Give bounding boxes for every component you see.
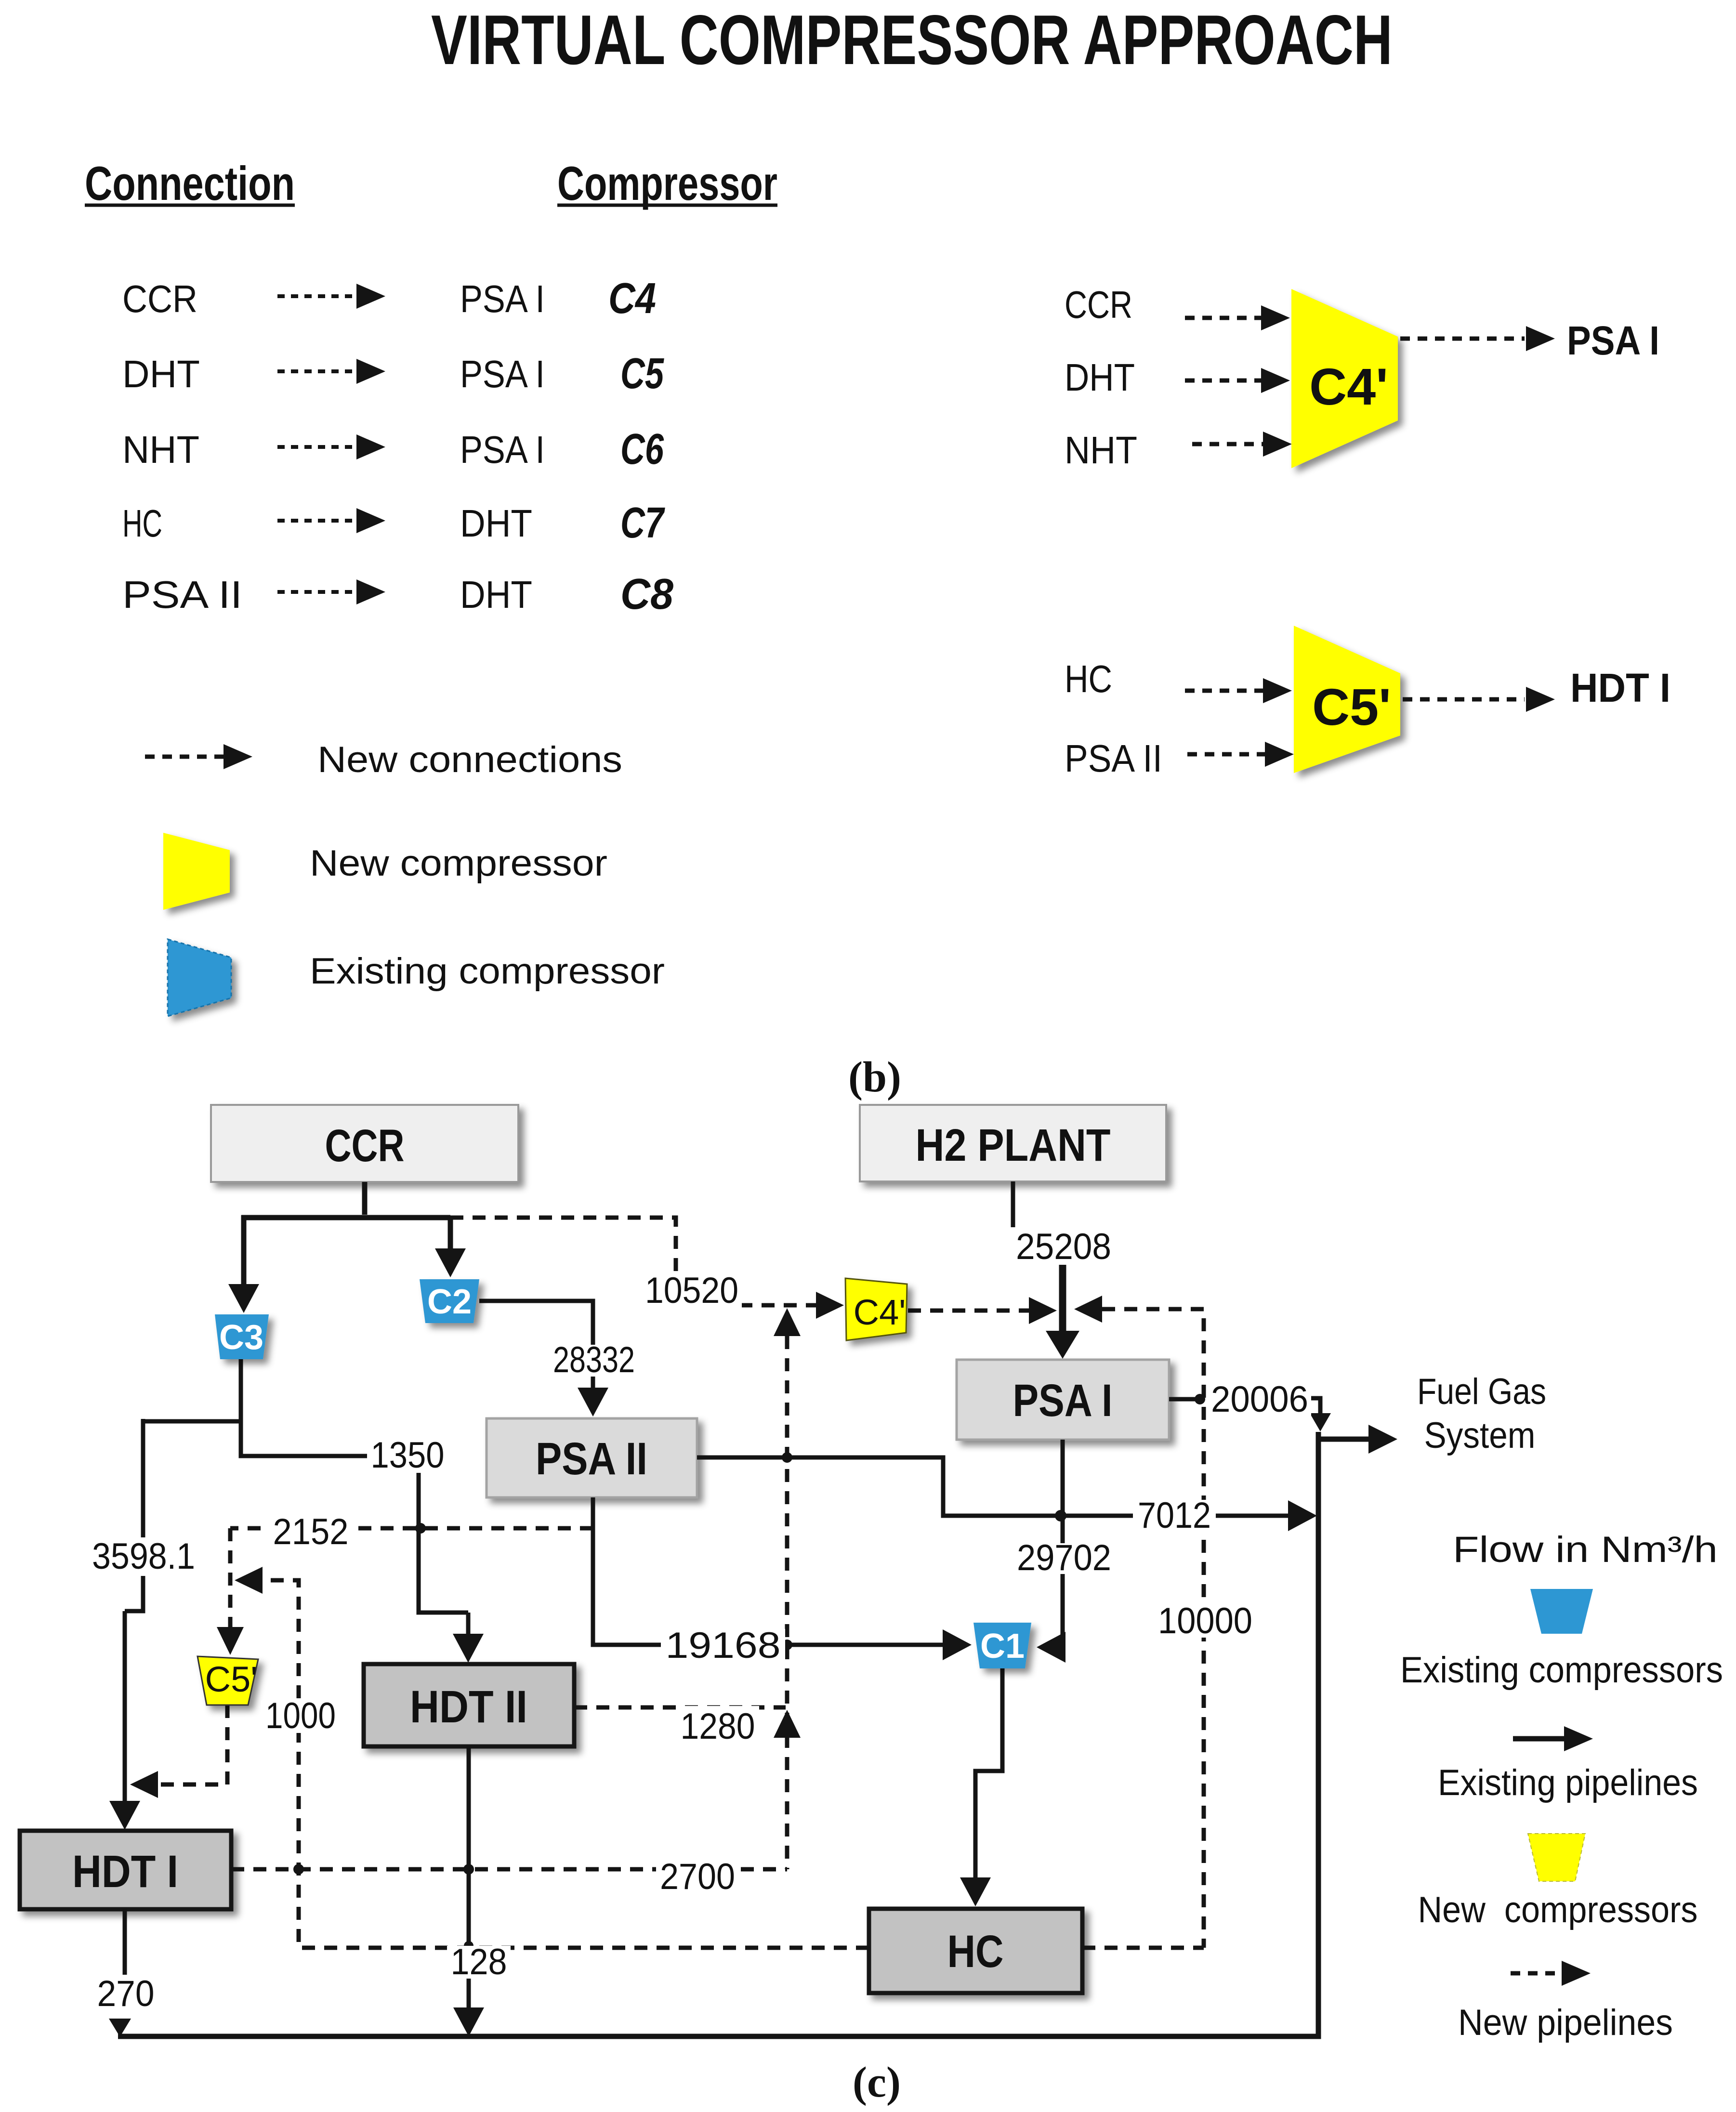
wire DHT to C4' dashed arrow bbox=[1185, 379, 1262, 383]
node junction 1350/2152 bbox=[415, 1523, 426, 1534]
svg-text:(b): (b) bbox=[848, 1053, 901, 1101]
svg-text:1350: 1350 bbox=[371, 1435, 445, 1476]
svg-text:29702: 29702 bbox=[1017, 1537, 1111, 1578]
svg-text:Connection: Connection bbox=[85, 157, 295, 210]
svg-text:NHT: NHT bbox=[1065, 429, 1137, 472]
svg-text:Existing compressor: Existing compressor bbox=[310, 951, 665, 992]
svg-text:H2 PLANT: H2 PLANT bbox=[916, 1120, 1111, 1171]
wire H2 PLANT down bbox=[1011, 1181, 1015, 1227]
svg-text:New connections: New connections bbox=[317, 739, 622, 780]
wire 25208 into PSA I bbox=[1059, 1264, 1066, 1331]
svg-text:C7: C7 bbox=[620, 499, 665, 547]
flow label 1000 bbox=[261, 1700, 340, 1733]
wire HDT I down 270 to bus bbox=[123, 1909, 127, 1975]
wire row2 dashed arrow bbox=[277, 369, 359, 373]
wire row1 dashed arrow bbox=[277, 294, 359, 298]
wire 20006 elbow to bus bbox=[1309, 1398, 1320, 1413]
svg-text:1280: 1280 bbox=[681, 1706, 755, 1747]
svg-text:2700: 2700 bbox=[660, 1856, 735, 1897]
box HDT II bbox=[364, 1664, 574, 1746]
wire HDT I dashed 2700 to riser bbox=[231, 1867, 787, 1872]
box CCR bbox=[211, 1105, 518, 1182]
wire C3 junction left 3598.1 bbox=[125, 1419, 241, 1801]
compressor C4' (section c) bbox=[845, 1278, 907, 1340]
wire HDT II dashed 1280 to riser bbox=[574, 1705, 786, 1710]
legend existing compressor symbol bbox=[168, 939, 231, 1016]
svg-text:C5: C5 bbox=[620, 350, 665, 398]
svg-text:128: 128 bbox=[451, 1941, 507, 1982]
svg-text:C8: C8 bbox=[620, 570, 673, 618]
wire C5' out dashed to HDT I feed bbox=[158, 1705, 227, 1784]
flow label 20006 bbox=[1208, 1382, 1311, 1416]
wire C3 down and 1350 branch bbox=[241, 1359, 468, 1634]
flow label 3598.1 bbox=[89, 1543, 196, 1573]
svg-text:PSA II: PSA II bbox=[122, 573, 242, 616]
wire HC to C5' dashed arrow bbox=[1185, 689, 1264, 693]
svg-text:PSA II: PSA II bbox=[536, 1433, 647, 1484]
svg-text:C4': C4' bbox=[1309, 357, 1388, 416]
flow label 128 bbox=[447, 1946, 511, 1979]
svg-text:PSA I: PSA I bbox=[1567, 318, 1659, 363]
wire CCR split bar bbox=[241, 1215, 450, 1220]
svg-text:PSA I: PSA I bbox=[460, 428, 545, 471]
box H2 PLANT bbox=[860, 1105, 1166, 1181]
svg-text:2152: 2152 bbox=[273, 1511, 349, 1552]
wire HDT II down 128 to bus bbox=[467, 1746, 471, 2008]
svg-text:C4: C4 bbox=[608, 275, 656, 323]
svg-text:HDT I: HDT I bbox=[1570, 665, 1670, 710]
svg-text:Fuel Gas: Fuel Gas bbox=[1417, 1371, 1546, 1412]
legend new connections arrow bbox=[145, 755, 224, 759]
box HDT I bbox=[20, 1831, 231, 1909]
svg-text:HC: HC bbox=[1065, 657, 1112, 700]
compressor C4' (section b) bbox=[1291, 289, 1398, 468]
svg-text:C6: C6 bbox=[620, 425, 664, 473]
svg-text:C3: C3 bbox=[219, 1318, 263, 1357]
wire PSA II right to fuel bus 7012 bbox=[697, 1457, 1289, 1516]
svg-text:C1: C1 bbox=[980, 1627, 1025, 1666]
flow label 29702 bbox=[1013, 1543, 1112, 1574]
svg-text:Existing compressors: Existing compressors bbox=[1400, 1650, 1723, 1691]
wire bus to Fuel Gas System arrow bbox=[1318, 1437, 1369, 1442]
svg-text:DHT: DHT bbox=[460, 573, 532, 616]
wire C4' to PSA I dashed arrow bbox=[1400, 337, 1525, 341]
flow label 25208 bbox=[1013, 1231, 1115, 1265]
svg-text:PSA I: PSA I bbox=[460, 277, 545, 320]
flow label 19168 bbox=[661, 1629, 785, 1664]
wire CCR to C4' dashed arrow bbox=[1185, 316, 1262, 320]
wire NHT to C4' dashed arrow bbox=[1192, 442, 1267, 446]
legend new pipelines arrow bbox=[1511, 1971, 1563, 1976]
wire row3 dashed arrow bbox=[277, 445, 359, 449]
compressor C3 bbox=[215, 1314, 269, 1359]
wire right dashed feed to PSA I line bbox=[1082, 1309, 1204, 1948]
svg-text:VIRTUAL COMPRESSOR APPROACH: VIRTUAL COMPRESSOR APPROACH bbox=[431, 0, 1393, 79]
svg-text:28332: 28332 bbox=[553, 1339, 635, 1380]
svg-text:System: System bbox=[1424, 1415, 1536, 1456]
node junction 7012/29702 bbox=[1055, 1510, 1066, 1522]
wire vertical dashed riser to C4' bbox=[785, 1336, 789, 1869]
svg-text:Existing pipelines: Existing pipelines bbox=[1438, 1762, 1698, 1803]
svg-text:HC: HC bbox=[122, 502, 162, 545]
wire fuel gas bus bbox=[118, 1432, 1318, 2036]
box HC bbox=[869, 1909, 1082, 1993]
legend new compressor symbol (c) bbox=[1528, 1834, 1585, 1881]
wire CCR to C2 bbox=[448, 1218, 453, 1248]
flow label 10520 bbox=[641, 1272, 742, 1309]
svg-text:Flow in Nm³/h: Flow in Nm³/h bbox=[1453, 1529, 1718, 1570]
wire PSA II down 19168 to C1 bbox=[593, 1497, 944, 1645]
svg-text:CCR: CCR bbox=[122, 277, 197, 320]
wire C2 out to PSA II bbox=[479, 1301, 593, 1388]
node junction 2700/1000 bbox=[293, 1864, 304, 1875]
flow label 7012 bbox=[1133, 1500, 1216, 1533]
wire CCR to C3 bbox=[241, 1215, 247, 1284]
wire row5 dashed arrow bbox=[277, 590, 359, 594]
legend new compressor symbol bbox=[163, 833, 230, 910]
flow label 270 bbox=[94, 1979, 157, 2010]
node junction 2700/128 bbox=[463, 1864, 474, 1875]
wire PSA II dashed 2152 bbox=[230, 1526, 593, 1531]
svg-text:CCR: CCR bbox=[1065, 283, 1132, 326]
flow label 1350 bbox=[367, 1438, 448, 1473]
svg-text:HC: HC bbox=[947, 1926, 1004, 1977]
svg-text:270: 270 bbox=[97, 1973, 155, 2014]
svg-text:C4': C4' bbox=[854, 1292, 906, 1332]
wire CCR down bbox=[362, 1182, 368, 1215]
node junction riser/19168 bbox=[782, 1640, 792, 1650]
svg-text:7012: 7012 bbox=[1138, 1495, 1211, 1536]
svg-text:1000: 1000 bbox=[265, 1695, 336, 1736]
flow label 10000 bbox=[1156, 1605, 1254, 1638]
arrow up 1280 flow on riser bbox=[774, 1710, 801, 1738]
svg-text:HDT I: HDT I bbox=[72, 1846, 178, 1897]
legend existing compressor symbol (c) bbox=[1530, 1589, 1593, 1634]
flow label 2700 bbox=[656, 1862, 739, 1893]
svg-text:PSA II: PSA II bbox=[1065, 737, 1162, 780]
flow label 1280 bbox=[676, 1706, 759, 1744]
wire 20006 from PSA I bbox=[1169, 1397, 1198, 1402]
svg-text:10520: 10520 bbox=[645, 1270, 738, 1311]
svg-text:20006: 20006 bbox=[1211, 1379, 1308, 1420]
compressor C5' (section b) bbox=[1294, 626, 1400, 773]
node junction 20006/10000 bbox=[1195, 1394, 1205, 1404]
compressor C5' (section c) bbox=[197, 1656, 258, 1705]
svg-text:NHT: NHT bbox=[122, 428, 199, 471]
svg-text:25208: 25208 bbox=[1016, 1226, 1111, 1267]
svg-text:(c): (c) bbox=[853, 2059, 901, 2106]
box PSA I bbox=[957, 1360, 1169, 1440]
flow label 2152 bbox=[268, 1516, 353, 1548]
wire C4' out dashed bbox=[908, 1309, 1029, 1313]
svg-text:10000: 10000 bbox=[1158, 1600, 1252, 1641]
svg-text:New compressor: New compressor bbox=[310, 843, 607, 884]
svg-text:C5': C5' bbox=[205, 1659, 258, 1699]
compressor C1 bbox=[973, 1623, 1031, 1668]
box PSA II bbox=[487, 1418, 697, 1497]
svg-text:C2: C2 bbox=[427, 1283, 472, 1321]
svg-text:DHT: DHT bbox=[122, 353, 200, 395]
wire HC dashed 1000 to C5' feed bbox=[263, 1580, 869, 1948]
svg-text:PSA I: PSA I bbox=[460, 353, 545, 395]
svg-text:3598.1: 3598.1 bbox=[92, 1536, 195, 1577]
svg-text:New pipelines: New pipelines bbox=[1458, 2002, 1673, 2043]
wire C1 out to HC bbox=[975, 1668, 1002, 1878]
svg-text:DHT: DHT bbox=[460, 502, 532, 545]
svg-text:New compressors: New compressors bbox=[1418, 1889, 1698, 1930]
svg-text:Compressor: Compressor bbox=[557, 157, 777, 210]
wire PSA I down 29702 to C1 bbox=[1063, 1440, 1065, 1647]
svg-text:C5': C5' bbox=[1312, 678, 1391, 736]
wire PSA II to C5' dashed arrow bbox=[1187, 752, 1266, 757]
svg-text:HDT II: HDT II bbox=[410, 1681, 527, 1732]
node junction 128/1000 bbox=[464, 1941, 473, 1951]
wire C5' to HDT I dashed arrow bbox=[1403, 697, 1525, 702]
svg-text:DHT: DHT bbox=[1065, 356, 1135, 399]
wire CCR dashed 10520 to C4' bbox=[450, 1218, 816, 1305]
wire row4 dashed arrow bbox=[277, 519, 359, 523]
flow label 28332 bbox=[549, 1345, 639, 1377]
svg-text:19168: 19168 bbox=[666, 1625, 781, 1666]
legend existing pipelines arrow bbox=[1513, 1736, 1564, 1742]
node junction riser/PSAII-out bbox=[782, 1452, 792, 1463]
svg-text:CCR: CCR bbox=[325, 1120, 405, 1171]
compressor C2 bbox=[420, 1279, 479, 1323]
svg-text:PSA I: PSA I bbox=[1013, 1375, 1113, 1426]
wire 2152 down to C5' bbox=[228, 1528, 233, 1627]
